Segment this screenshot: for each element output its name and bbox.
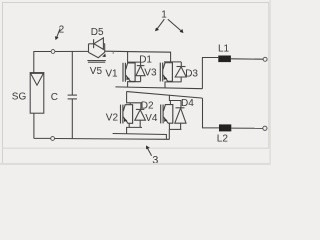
svg-text:V5: V5 — [90, 66, 103, 77]
IGBT V2 — [121, 105, 133, 124]
callout arrow 2 — [55, 29, 60, 40]
wire pair V2-D2 bottom bar — [127, 127, 142, 133]
callout arrow 3 — [146, 145, 152, 155]
thyristor V5 — [87, 44, 105, 63]
IGBT V4 — [161, 105, 173, 124]
wire capacitor top — [71, 51, 73, 95]
svg-text:V2: V2 — [106, 113, 119, 124]
generator SG box — [30, 73, 44, 114]
wire pair V1-D1 bottom bar — [128, 82, 141, 87]
svg-text:V3: V3 — [144, 67, 157, 78]
wire DC+ top rail — [105, 51, 171, 62]
wire capacitor bottom — [71, 99, 73, 139]
IGBT V1 — [123, 63, 135, 82]
terminal output 2 — [263, 126, 267, 130]
svg-text:L2: L2 — [217, 134, 229, 145]
diode D4 — [175, 101, 186, 130]
svg-text:SG: SG — [12, 92, 27, 103]
svg-text:V1: V1 — [105, 68, 118, 79]
wire node A to L1 — [202, 58, 218, 89]
wire node A rail — [115, 87, 202, 89]
svg-text:V4: V4 — [145, 113, 158, 124]
IGBT V3 — [160, 63, 172, 82]
diode D3 — [175, 62, 186, 82]
svg-text:D2: D2 — [141, 100, 154, 111]
inductor L2 — [219, 124, 231, 131]
wire pair V3-D3 bottom bar — [165, 82, 181, 88]
svg-text:D1: D1 — [139, 54, 152, 65]
svg-text:1: 1 — [161, 9, 167, 20]
wire node B rail — [127, 92, 203, 99]
terminal output 1 — [263, 57, 267, 61]
wire L1 to terminal — [231, 58, 263, 60]
wire SG top vertical — [33, 52, 35, 73]
diode D1 — [136, 62, 145, 82]
node connector on top wire — [51, 50, 55, 54]
wire node to D5 — [55, 50, 88, 52]
wire V3 emitter stub — [168, 80, 170, 83]
wire V2 emitter stub — [128, 123, 130, 127]
svg-text:D3: D3 — [185, 69, 198, 80]
wire V4 pair stub down — [168, 129, 170, 139]
wire pair V1-D1 top bar — [128, 51, 141, 62]
wire pair V4-D4 bottom bar — [169, 128, 181, 130]
node connector on bottom wire — [51, 137, 55, 141]
wire V2 collector stub — [129, 103, 131, 105]
diode D2 — [135, 103, 146, 128]
scan edge shading right — [269, 0, 271, 165]
wire top left horizontal — [33, 51, 51, 53]
svg-text:D4: D4 — [181, 98, 194, 109]
wire SG bottom vertical — [33, 113, 35, 138]
svg-text:D5: D5 — [91, 27, 104, 38]
border frame — [3, 3, 270, 164]
scan edge shading bottom — [0, 163, 271, 165]
wire L2 to terminal — [231, 127, 262, 129]
junction stub on top rail — [112, 51, 114, 54]
wire node B to L2 — [203, 98, 220, 128]
svg-text:2: 2 — [59, 25, 65, 36]
callout arrow 1 — [155, 19, 184, 33]
inductor L1 — [218, 56, 231, 63]
wire V4 collector stub — [169, 101, 171, 105]
wire pair V4-D4 top bar — [169, 95, 181, 100]
wire pair V2-D2 top bar — [127, 92, 142, 103]
wire bottom to bridge — [55, 138, 170, 141]
wire DC- rail — [113, 134, 167, 139]
svg-text:L1: L1 — [218, 44, 230, 55]
diode D5 — [89, 38, 105, 50]
wire V4 emitter lead — [168, 123, 170, 129]
wire bottom left horizontal — [34, 137, 51, 139]
wire pair V3-D3 top bar — [164, 61, 181, 63]
capacitor C — [68, 95, 77, 99]
svg-text:C: C — [51, 92, 58, 103]
